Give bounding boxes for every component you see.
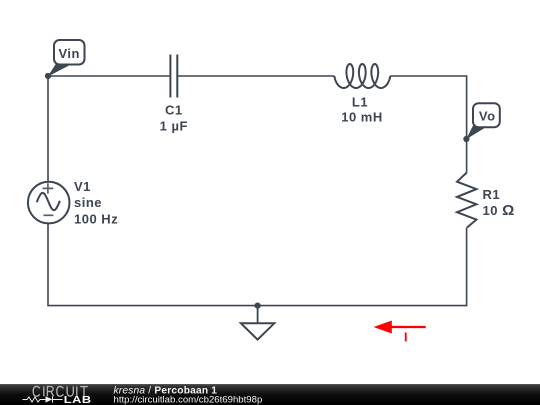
inductor L1 bbox=[334, 64, 390, 88]
voltage source V1 circle bbox=[28, 182, 70, 224]
V1 value labels bbox=[74, 179, 118, 227]
node Vin flag tail bbox=[48, 63, 70, 77]
capacitor C1 value labels bbox=[160, 103, 188, 134]
svg-text:L1: L1 bbox=[352, 94, 368, 109]
wire resistor-to-bottom, bottom wire, up to source bbox=[48, 223, 467, 305]
svg-text:100 Hz: 100 Hz bbox=[74, 211, 118, 226]
svg-text:10 mH: 10 mH bbox=[341, 109, 383, 124]
node Vo flag box bbox=[473, 103, 500, 127]
V1 plus sign bbox=[43, 183, 54, 193]
svg-text:1 µF: 1 µF bbox=[160, 119, 188, 134]
ground stub wire bbox=[257, 306, 259, 324]
wire top-left segment bbox=[48, 75, 170, 77]
footer logo squiggle bbox=[23, 396, 63, 402]
inductor L1 value labels bbox=[341, 94, 383, 124]
ground symbol triangle bbox=[241, 323, 274, 339]
footer logo CIRCUIT bbox=[33, 386, 88, 396]
node Vin flag box bbox=[54, 40, 85, 65]
svg-text:Vo: Vo bbox=[479, 109, 496, 124]
svg-text:Vin: Vin bbox=[58, 46, 80, 61]
svg-text:http://circuitlab.com/cb26t69h: http://circuitlab.com/cb26t69hbt98p bbox=[114, 395, 263, 405]
svg-text:10 Ω: 10 Ω bbox=[483, 202, 515, 219]
resistor R1 value labels bbox=[483, 187, 515, 219]
footer logo diode bbox=[46, 396, 53, 402]
V1 minus sign bbox=[43, 214, 53, 216]
svg-text:LAB: LAB bbox=[64, 395, 92, 405]
svg-text:C1: C1 bbox=[165, 103, 183, 118]
ground node dot bbox=[255, 303, 261, 309]
wire capacitor-to-inductor bbox=[178, 75, 335, 77]
svg-text:I: I bbox=[404, 330, 407, 344]
svg-text:R1: R1 bbox=[483, 187, 501, 202]
node Vin dot bbox=[45, 73, 51, 79]
node Vo flag tail bbox=[466, 124, 486, 139]
resistor R1 bbox=[457, 172, 476, 227]
V1 sine symbol bbox=[37, 193, 60, 210]
node Vo dot bbox=[463, 136, 469, 142]
capacitor C1 bbox=[170, 55, 177, 98]
svg-text:sine: sine bbox=[74, 195, 102, 210]
wire source-top-to-Vin-node bbox=[47, 76, 49, 182]
current arrow I bbox=[374, 321, 426, 334]
footer bar bbox=[0, 384, 540, 405]
svg-text:V1: V1 bbox=[74, 179, 91, 194]
wire inductor-to-right-corner and down to resistor bbox=[390, 76, 466, 172]
